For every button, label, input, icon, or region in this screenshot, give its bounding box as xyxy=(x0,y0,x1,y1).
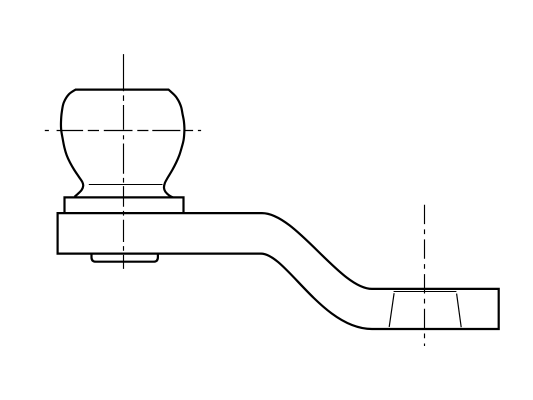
ball base flange (washer) xyxy=(65,197,184,213)
hole vertical centerline xyxy=(424,205,426,346)
hole right countersink taper line xyxy=(457,294,462,328)
ball vertical centerline xyxy=(123,54,125,269)
ball mount bar outline (S-shaped drawbar) xyxy=(58,213,499,329)
hole left countersink taper line xyxy=(389,293,394,327)
hole counterbore rim thin line xyxy=(394,291,457,293)
shank nut below bar xyxy=(92,253,158,262)
neck tangent thin line xyxy=(89,184,163,186)
hitch ball outline xyxy=(61,90,184,198)
ball horizontal centerline xyxy=(45,130,201,132)
